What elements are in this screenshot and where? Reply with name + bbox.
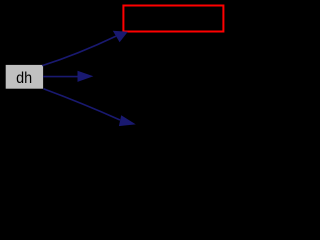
node (red highlighted box, label hidden) bbox=[123, 6, 223, 32]
node dh (current directory box) bbox=[6, 65, 43, 89]
edge dh -> red node (wire) bbox=[42, 31, 128, 66]
edge dh -> bottom node (wire) bbox=[44, 89, 136, 126]
svg-text:dh: dh bbox=[16, 69, 32, 87]
edge dh -> middle node (wire) bbox=[43, 71, 93, 82]
